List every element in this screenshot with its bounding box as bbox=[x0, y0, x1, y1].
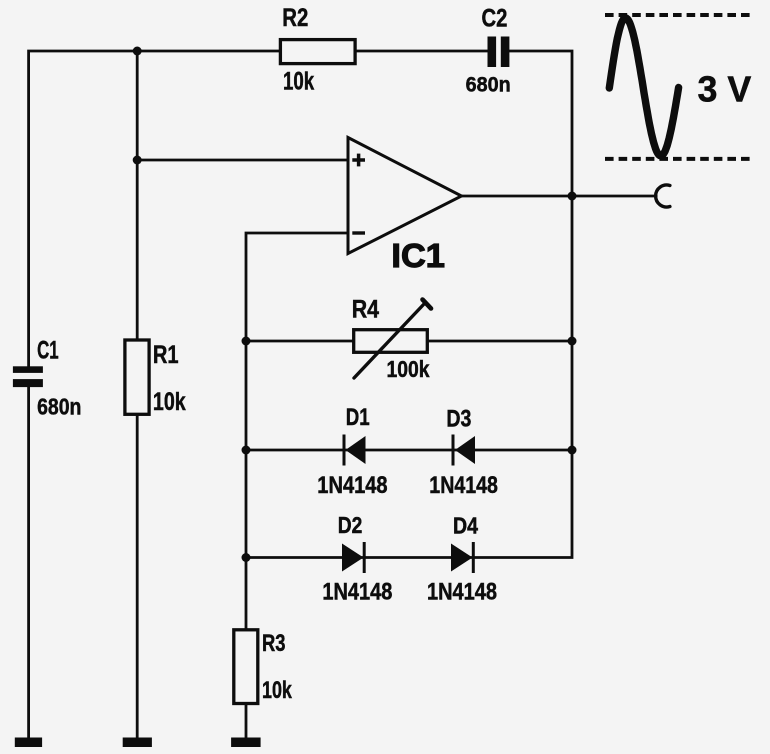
svg-text:C1: C1 bbox=[37, 337, 59, 365]
svg-text:R3: R3 bbox=[262, 630, 286, 657]
svg-text:R1: R1 bbox=[153, 341, 179, 369]
svg-text:680n: 680n bbox=[466, 74, 511, 97]
svg-text:D4: D4 bbox=[453, 513, 478, 539]
svg-text:3 V: 3 V bbox=[698, 69, 752, 110]
svg-text:IC1: IC1 bbox=[391, 237, 445, 274]
svg-text:1N4148: 1N4148 bbox=[427, 579, 497, 606]
svg-text:R2: R2 bbox=[282, 4, 308, 32]
svg-text:1N4148: 1N4148 bbox=[317, 472, 387, 499]
svg-text:10k: 10k bbox=[283, 68, 314, 96]
svg-text:D3: D3 bbox=[446, 405, 471, 432]
svg-text:D2: D2 bbox=[338, 512, 363, 538]
svg-text:680n: 680n bbox=[37, 393, 81, 419]
svg-text:D1: D1 bbox=[346, 404, 370, 431]
svg-text:10k: 10k bbox=[153, 388, 186, 416]
svg-text:C2: C2 bbox=[482, 5, 508, 33]
svg-text:1N4148: 1N4148 bbox=[429, 472, 498, 499]
svg-text:1N4148: 1N4148 bbox=[322, 579, 392, 606]
svg-text:R4: R4 bbox=[352, 295, 379, 323]
svg-text:100k: 100k bbox=[387, 356, 430, 382]
svg-text:10k: 10k bbox=[262, 677, 292, 704]
